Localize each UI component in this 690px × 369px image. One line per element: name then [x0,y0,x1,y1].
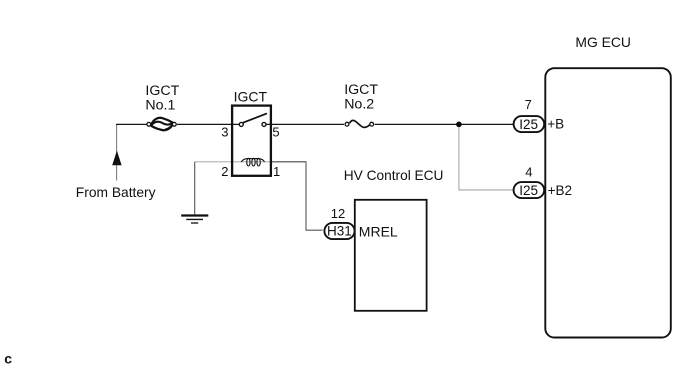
relay coil [241,158,264,166]
connector I25 pin 7 [514,116,545,132]
svg-text:5: 5 [272,125,279,140]
wire pin1 to H31 [271,162,323,230]
svg-text:c: c [4,351,12,367]
svg-text:7: 7 [525,97,532,112]
svg-text:+B2: +B2 [548,183,572,198]
wire main segment 2 [177,123,240,125]
svg-text:I25: I25 [519,183,538,198]
svg-text:MG ECU: MG ECU [575,34,631,50]
relay switch contact [239,113,267,126]
svg-text:HV Control ECU: HV Control ECU [344,168,444,183]
wire branch to +B2 [459,124,514,190]
connector I25 pin 4 [514,182,545,198]
svg-text:2: 2 [221,164,228,179]
junction node [456,122,462,128]
svg-text:I25: I25 [519,117,538,132]
wire main segment 1 [116,123,146,125]
wire main segment 4 [375,123,514,125]
connector H31 pin 12 [324,223,354,239]
svg-text:12: 12 [331,206,345,221]
wire ground lead [194,162,196,215]
svg-text:+B: +B [547,117,564,132]
label IGCT No.2 [344,82,378,112]
wire main segment 3 [266,123,344,125]
svg-text:4: 4 [525,165,532,180]
svg-text:IGCT: IGCT [234,89,268,105]
svg-text:No.2: No.2 [344,96,374,112]
svg-text:No.1: No.1 [145,97,175,113]
fusible link IGCT No.1 [147,118,176,130]
relay IGCT box [232,106,271,176]
label IGCT No.1 [145,83,179,113]
svg-text:MREL: MREL [359,223,398,239]
svg-text:H31: H31 [327,224,352,239]
wire coil row [195,161,306,163]
svg-text:1: 1 [273,164,280,179]
ground [181,216,208,224]
wire battery vertical [116,124,118,180]
svg-text:From Battery: From Battery [76,185,156,200]
svg-text:3: 3 [221,125,228,140]
arrow from battery [112,151,121,166]
HV Control ECU box [355,200,427,311]
fuse IGCT No.2 [345,120,374,127]
MG ECU box [545,68,671,337]
